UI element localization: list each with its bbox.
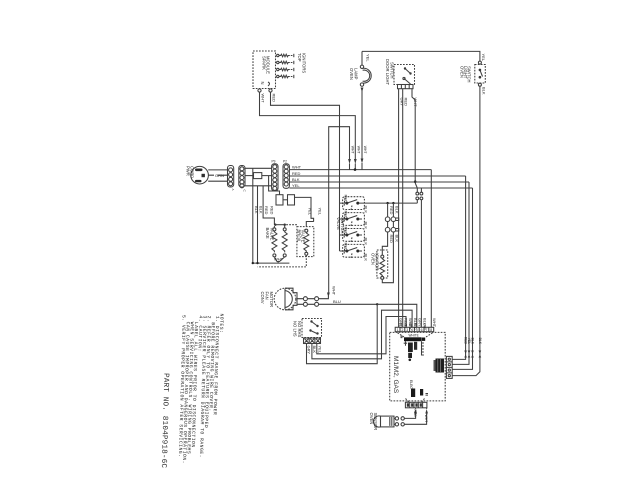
svg-text:YEL: YEL [467,338,471,345]
svg-text:GRN: GRN [215,173,224,178]
plug pair below junction [415,183,423,327]
spark module U1 [253,51,276,89]
igniter feed connectors [382,202,399,283]
svg-text:DOOR LIGHT: DOOR LIGHT [385,59,390,85]
M1/M2 top connector strip [395,327,434,332]
svg-text:BLK: BLK [478,338,482,345]
motor connector [297,296,377,306]
svg-text:M1/M2, GAS: M1/M2, GAS [392,356,399,394]
svg-text:NO RHS: NO RHS [297,321,302,337]
svg-text:VALVE: VALVE [269,228,274,241]
svg-text:YEL: YEL [481,54,486,62]
svg-text:OVEN: OVEN [349,68,354,80]
wire jog to motor feed [329,127,350,293]
svg-text:SENSOR: SENSOR [373,413,378,431]
svg-text:TOP: TOP [297,53,302,62]
svg-text:RED: RED [269,206,274,215]
top ignitors (4 spark electrodes) [277,53,307,78]
svg-text:SWITCH: SWITCH [467,66,472,83]
surface switch row1 wire [358,202,418,204]
small parts above bottom strip [406,380,429,407]
svg-text:YEL: YEL [292,183,300,188]
row stubs [358,219,362,251]
svg-text:RED: RED [404,98,409,107]
wires valve bottoms [252,257,290,265]
svg-text:BLK: BLK [364,238,369,246]
door lock switch S8 [293,319,322,338]
svg-text:BLK: BLK [364,254,369,262]
svg-text:IGNITOR: IGNITOR [375,253,380,270]
nested U wires door lock to M1/M2 [307,304,417,363]
svg-text:MOTOR: MOTOR [269,292,274,308]
svg-text:WHT: WHT [423,323,427,330]
svg-text:GRY: GRY [408,323,412,331]
svg-text:WHT: WHT [356,146,360,154]
terminal strip TB2 [239,166,247,193]
svg-text:VALVE: VALVE [300,230,305,243]
svg-text:BLK: BLK [395,235,400,243]
svg-text:1: 1 [397,328,399,332]
svg-text:RED: RED [272,94,277,103]
oven sensor RT1 [369,413,404,431]
svg-text:BLU: BLU [333,299,341,304]
junction on BLK bus [414,180,417,183]
svg-text:BLK: BLK [395,206,400,214]
wires down from plug row to valve cluster [253,168,280,263]
svg-text:RED: RED [389,206,394,215]
disconnect arrows on risers [464,337,482,358]
svg-text:RED: RED [344,195,349,204]
bus corner drops [430,170,432,328]
bus wire BLK [289,177,469,182]
svg-text:BAKE: BAKE [265,228,270,239]
oven ignitor R1 [370,250,387,279]
arrow motor WHT [327,286,337,298]
svg-text:WHT: WHT [292,165,302,170]
svg-text:P9: P9 [272,160,276,164]
svg-text:RED: RED [292,171,301,176]
junction motor wire [376,303,378,305]
door light switch S2 [385,59,415,85]
svg-text:GRY: GRY [307,346,312,355]
wire WHT from spark module [260,92,361,170]
power cord plug P1 [185,166,208,184]
oven sensor wires [404,408,428,425]
M1/M2 bottom connector strip [405,402,427,408]
connector strip P9 [272,160,279,191]
plug wires to terminal block [208,170,227,181]
svg-text:BLK: BLK [254,206,259,214]
notes block [177,312,225,465]
svg-text:BLK: BLK [292,177,300,182]
svg-text:WHT: WHT [351,146,355,154]
svg-text:YEL: YEL [317,208,322,216]
bus wire YEL [289,183,472,188]
svg-text:BLK: BLK [471,338,475,345]
svg-text:BLK: BLK [364,222,369,230]
svg-text:8: 8 [430,328,432,332]
M1/M2 right connector strip [446,356,452,378]
svg-text:CORD: CORD [190,166,195,178]
svg-text:WHT: WHT [332,286,337,296]
connector strip P10 [283,160,289,189]
svg-text:RED: RED [264,206,269,215]
svg-text:LAMP: LAMP [353,68,358,80]
svg-text:RED: RED [413,410,417,418]
wire oven light switch down right side [479,86,481,347]
svg-text:CONV: CONV [260,292,265,304]
door lock connector [304,338,323,354]
wire from relay to valves [263,217,274,219]
svg-text:WHT: WHT [274,257,284,262]
svg-text:BLK: BLK [481,87,486,95]
svg-text:SPARK: SPARK [261,56,266,70]
wires down from door light switch [399,89,418,328]
bus wire WHT [289,165,431,170]
bus wire RED [289,171,465,176]
svg-text:C: C [242,190,246,193]
wire RED from spark module [271,92,340,251]
svg-text:RED: RED [413,323,417,330]
svg-text:MODULE: MODULE [266,56,271,74]
svg-text:BLK: BLK [259,206,264,214]
M1/M2 internal transformer blob [434,359,445,373]
svg-text:RED: RED [344,227,349,236]
svg-text:FAN: FAN [265,292,270,300]
conv fan motor B1 [260,288,297,310]
gang line for valve switches [340,203,347,251]
svg-text:YEL: YEL [366,54,371,62]
broil valve optional L3 dashed box [258,208,323,267]
svg-text:BLK: BLK [312,346,317,354]
svg-text:PART NO. 8104P918-6C: PART NO. 8104P918-6C [159,373,169,469]
svg-text:IGNITORS: IGNITORS [301,53,306,73]
svg-text:YEL: YEL [308,208,313,216]
svg-text:WHITE: WHITE [409,334,419,338]
terminal strip TB1 [228,166,236,191]
svg-text:YEL: YEL [403,323,407,329]
broil valve L2 [282,225,287,257]
svg-text:P2: P2 [283,160,287,164]
svg-text:YEL: YEL [318,346,323,354]
top wire H1 [362,51,480,61]
spark module terminals [258,89,272,92]
svg-text:WHT: WHT [424,415,428,423]
oven light switch S3 [460,54,487,95]
svg-text:GRY: GRY [418,318,423,327]
door light switch connector [398,85,414,89]
svg-text:BLK: BLK [399,323,403,330]
svg-text:6: 6 [421,328,423,332]
labels above M1/M2 strip [399,318,438,330]
wires TB2 to P9 strip [245,168,272,186]
junction dot bus WHT [354,168,357,171]
M1/M2 internals [398,333,433,361]
svg-text:RED: RED [464,337,468,345]
svg-text:A: A [231,189,235,191]
svg-text:NO LHS: NO LHS [293,321,298,337]
surface valve switch bank S4-S7 [336,195,369,262]
bake valve L1 [265,224,286,257]
arrow into bus (motor neutral) [348,159,351,164]
M1/M2 GAS control dashed box [390,332,446,401]
svg-text:SWITCH: SWITCH [390,62,395,79]
oven lamp DS1 [349,51,371,86]
svg-text:WHT: WHT [432,318,437,328]
svg-text:RED: RED [344,211,349,220]
svg-text:WHT: WHT [261,94,266,104]
relay box K1 [276,195,314,222]
svg-text:N: N [260,82,265,85]
svg-text:WHT: WHT [363,146,367,154]
svg-text:ELEC: ELEC [409,380,413,389]
wire from oven lamp down to bus [361,88,367,170]
svg-text:RED: RED [344,243,349,252]
